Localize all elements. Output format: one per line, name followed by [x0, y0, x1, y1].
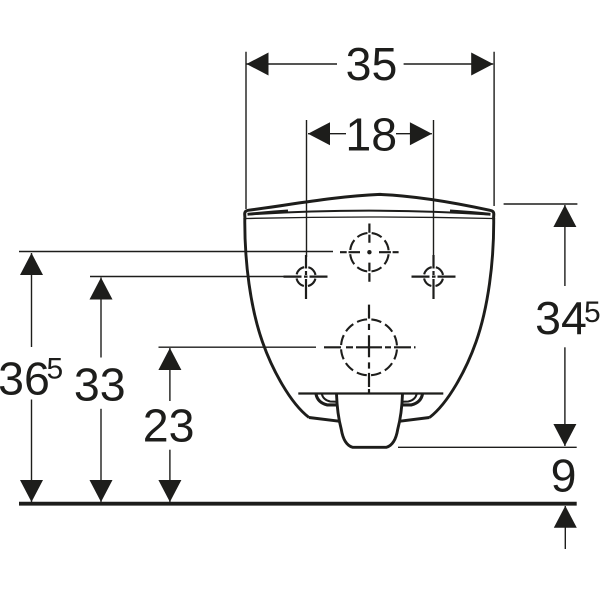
- svg-text:5: 5: [584, 296, 600, 329]
- svg-text:33: 33: [74, 358, 126, 410]
- svg-text:34: 34: [535, 292, 587, 344]
- svg-text:23: 23: [143, 399, 195, 451]
- svg-text:5: 5: [46, 352, 63, 385]
- svg-text:9: 9: [551, 449, 577, 501]
- svg-text:18: 18: [345, 108, 397, 160]
- svg-text:36: 36: [0, 353, 50, 405]
- svg-text:35: 35: [346, 38, 398, 90]
